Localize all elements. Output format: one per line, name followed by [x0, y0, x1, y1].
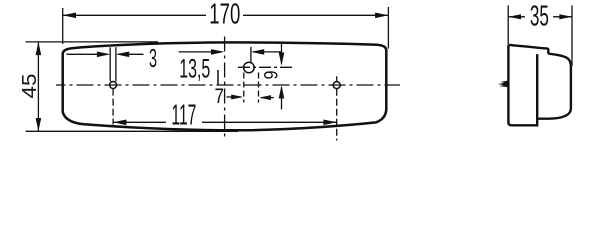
centerline above center hole: [250, 47, 252, 62]
dimension 35: extension line right: [571, 6, 573, 67]
dimension 170: extension line right: [387, 7, 389, 49]
tick mark on centerline left of center hole: [217, 70, 219, 85]
dimension 3: right arrow: [118, 53, 144, 55]
dimension 170: left arrowhead: [63, 13, 76, 19]
dimension 45: extension line bottom: [26, 130, 239, 132]
svg-text:45: 45: [19, 74, 41, 99]
slot edge lines at left hole (3 mm): [110, 47, 116, 81]
center hole: [244, 62, 255, 73]
slot edge lines below center hole (7 mm): [244, 73, 259, 103]
dimension 170: right arrowhead: [375, 13, 388, 19]
dimension 7: left arrow: [227, 96, 242, 98]
dimension 170: dimension line: [63, 14, 389, 16]
svg-text:35: 35: [530, 1, 549, 33]
dimension 9: bottom arrow (up): [281, 88, 283, 110]
side view: back plate, bottom and front edge of base: [508, 45, 537, 126]
dimension 13,5: right arrow line: [253, 51, 282, 53]
dimension 117: left arrowhead: [113, 120, 126, 126]
svg-text:7: 7: [215, 85, 225, 108]
side view: mounting screw stud: [498, 81, 508, 87]
dimension 117: right arrowhead: [323, 120, 336, 126]
dimension 170: extension line left: [62, 8, 64, 44]
centerline of center hole (horizontal): [238, 66, 292, 68]
dimension 45: extension line top: [26, 41, 159, 43]
centerline below right hole: [336, 89, 338, 141]
dimension 7: right arrow: [261, 97, 274, 99]
centerline above right hole: [336, 76, 338, 81]
main horizontal centerline (through mounting holes): [56, 84, 400, 86]
svg-text:9: 9: [262, 71, 283, 80]
svg-text:3: 3: [149, 43, 157, 73]
mounting hole left: [110, 82, 117, 89]
dimension 35: dimension line: [508, 16, 572, 18]
centerline below left hole: [112, 89, 114, 125]
side view: base top edge with step: [508, 45, 548, 54]
svg-text:13,5: 13,5: [179, 53, 210, 83]
dimension 45: dimension line: [37, 42, 39, 132]
svg-text:117: 117: [171, 99, 196, 131]
svg-text:170: 170: [209, 0, 240, 31]
dimension 35: right arrowhead: [559, 14, 572, 19]
dimension 45: bottom arrowhead: [36, 118, 42, 131]
mounting hole right: [333, 82, 340, 89]
dimension 13,5: left arrow line: [179, 51, 223, 53]
dimension 3: left arrow: [67, 53, 109, 55]
dimension 35: left arrowhead: [508, 14, 521, 19]
dimension 45: top arrowhead: [36, 42, 42, 55]
side view: lens outline: [537, 54, 571, 119]
dimension 117: dimension line: [113, 121, 337, 123]
vertical centerline of body: [224, 37, 226, 141]
lamp body outline (front view): [63, 42, 387, 130]
dimension 9: top arrow (down): [281, 44, 283, 64]
dimension 35: extension line left: [507, 6, 509, 45]
